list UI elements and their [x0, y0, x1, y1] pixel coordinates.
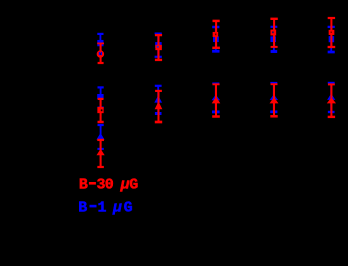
legend text B=1 uG (blue): [78, 199, 132, 216]
errorbar blue col5 lower: [328, 83, 335, 112]
errorbar red col2 lower: [155, 91, 162, 122]
legend text B=30 uG (red): [79, 177, 138, 194]
marker red open square col1 middle: [97, 107, 103, 113]
marker red triangle col4 lower: [271, 98, 278, 103]
marker blue triangle col3 lower: [213, 96, 219, 100]
marker red open square col5 upper: [329, 30, 335, 35]
errorbar red col3 upper: [212, 21, 220, 48]
marker red triangle col3 lower: [213, 98, 219, 103]
marker blue triangle col1 lower: [98, 134, 104, 139]
svg-text:1: 1: [98, 199, 107, 216]
svg-text:μ: μ: [120, 177, 130, 194]
marker blue square col1 middle: [98, 95, 103, 99]
errorbar red col5 lower: [328, 84, 335, 117]
errorbar red col1 middle: [98, 99, 104, 122]
marker blue triangle col5 lower: [328, 95, 334, 100]
marker blue triangle col4 lower: [271, 95, 277, 99]
errorbar blue col2 upper: [155, 33, 162, 56]
errorbar blue col2 lower: [155, 86, 162, 114]
marker red triangle col2 lower: [156, 103, 162, 109]
marker blue square col4 upper: [271, 37, 276, 42]
errorbar blue col3 lower: [212, 83, 220, 112]
errorbar blue col1 middle: [98, 87, 104, 107]
errorbar red col3 lower: [212, 84, 220, 116]
errorbar blue col1 lower: [97, 125, 103, 149]
marker red open square col2 upper: [155, 45, 162, 50]
svg-text:G: G: [124, 199, 133, 216]
errorbar red col1 upper: [97, 43, 104, 63]
marker blue square col2 upper: [156, 43, 162, 48]
marker red triangle col1 lower: [98, 150, 104, 155]
marker blue square col1 upper: [98, 40, 103, 45]
errorbar blue col1 upper: [97, 34, 103, 54]
marker blue triangle col2 lower: [155, 97, 161, 102]
errorbar red col5 upper: [328, 18, 336, 47]
marker red open square col3 upper: [213, 32, 219, 37]
errorbar red col1 lower: [97, 140, 104, 167]
errorbar red col4 upper: [270, 19, 277, 47]
errorbar blue col4 upper: [271, 27, 278, 52]
marker red open circle col1 upper: [98, 52, 103, 57]
marker blue square col3 upper: [214, 37, 219, 42]
svg-text:B: B: [78, 199, 87, 216]
svg-text:G: G: [129, 177, 138, 194]
marker blue square col5 upper: [329, 37, 334, 42]
svg-text:B: B: [79, 177, 88, 194]
svg-text:0: 0: [105, 177, 114, 194]
marker red triangle col5 lower: [328, 98, 335, 103]
errorbar blue col5 upper: [328, 27, 335, 52]
errorbar red col2 upper: [155, 35, 162, 60]
errorbar blue col4 lower: [270, 83, 277, 112]
errorbar red col4 lower: [270, 84, 277, 116]
errorbar blue col3 upper: [212, 27, 219, 51]
svg-text:μ: μ: [112, 199, 122, 216]
marker red open square col4 upper: [270, 30, 276, 36]
